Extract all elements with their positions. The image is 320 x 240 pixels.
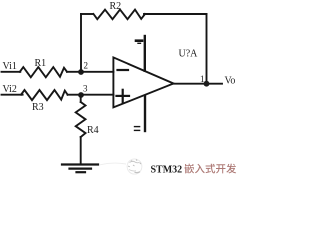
- svg-text:U?A: U?A: [179, 49, 199, 60]
- svg-text:1: 1: [200, 74, 205, 84]
- node 2 junction: [78, 69, 84, 75]
- svg-text:R1: R1: [35, 58, 47, 69]
- power pin V+: [136, 36, 145, 71]
- svg-text:Vi2: Vi2: [3, 84, 17, 95]
- ground: [62, 165, 98, 173]
- svg-text:Vi1: Vi1: [3, 61, 17, 72]
- wire feedback top right segment: [144, 13, 207, 15]
- resistor R1: [20, 67, 67, 77]
- wire node 3 down to R4: [80, 95, 82, 102]
- wire feedback left vertical: [80, 14, 82, 72]
- wire R3 to node 3: [68, 94, 81, 96]
- wire R1 to node 2: [67, 71, 81, 73]
- wire node 3 to non-inverting input: [81, 94, 113, 96]
- svg-text:3: 3: [83, 84, 88, 94]
- svg-text:Vo: Vo: [225, 76, 236, 87]
- resistor R4: [76, 102, 86, 137]
- resistor R2: [94, 10, 146, 20]
- wire Vi1 lead: [2, 71, 21, 73]
- watermark logo: [100, 159, 142, 174]
- wire output: [174, 83, 223, 85]
- wire node 2 to inverting input: [81, 71, 113, 73]
- svg-text:2: 2: [84, 61, 89, 71]
- svg-text:STM32: STM32: [151, 165, 183, 176]
- wire feedback top left segment: [81, 13, 93, 15]
- wire Vi2 lead: [2, 94, 23, 96]
- wire R4 to ground: [80, 137, 82, 164]
- node 3 junction: [78, 92, 84, 98]
- node output junction: [204, 81, 210, 87]
- svg-text:R4: R4: [87, 125, 99, 136]
- watermark text 嵌入式开发: [184, 164, 236, 174]
- op-amp U?A: [113, 57, 173, 107]
- resistor R3: [21, 90, 68, 100]
- wire feedback right vertical: [206, 14, 208, 84]
- svg-text:R3: R3: [32, 102, 44, 113]
- svg-text:R2: R2: [110, 1, 122, 12]
- power pin V-: [135, 96, 146, 131]
